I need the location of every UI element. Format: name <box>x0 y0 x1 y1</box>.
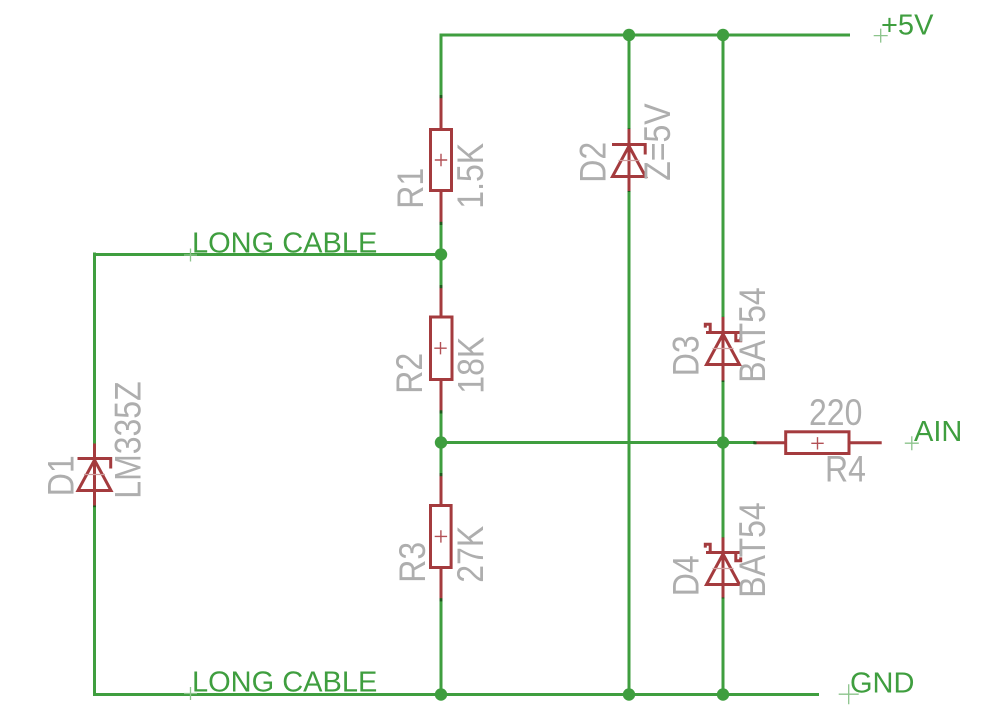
wire D2 column lower <box>628 190 631 695</box>
svg-text:1.5K: 1.5K <box>451 143 492 209</box>
svg-text:LM335Z: LM335Z <box>108 381 149 498</box>
diode D1 origin line <box>84 474 105 476</box>
svg-text:R1: R1 <box>391 168 432 209</box>
node AIN cross <box>905 436 919 450</box>
pin R1 top <box>440 96 443 129</box>
svg-text:R2: R2 <box>390 353 431 394</box>
resistor R1 origin cross <box>435 154 447 166</box>
svg-text:D3: D3 <box>666 335 707 376</box>
pin R2 top <box>440 286 443 317</box>
wire LONG CABLE top <box>95 253 442 256</box>
pin R3 bottom <box>440 568 443 599</box>
node bottom-R3 <box>435 688 447 700</box>
label origin crosses <box>184 29 919 705</box>
node mid D3-D4 <box>717 436 729 448</box>
diode D4 origin line <box>713 568 734 570</box>
pin R3 top <box>440 474 443 506</box>
wire R1 column top <box>440 34 443 98</box>
node GND cross <box>839 684 859 704</box>
diode D4 (schottky BAT54) <box>705 538 740 598</box>
node bottom-D2 <box>623 688 635 700</box>
dark pin-wire overlap dots <box>93 95 756 601</box>
svg-text:27K: 27K <box>451 526 492 583</box>
svg-text:Z=5V: Z=5V <box>638 103 679 180</box>
wire left column upper <box>93 253 96 446</box>
wire R1-R2 segment <box>440 223 443 287</box>
wire bottom GND rail <box>93 693 819 696</box>
wire D2 column upper <box>628 35 631 130</box>
wire R3-bottom segment <box>440 597 443 695</box>
node bottom-D4 <box>717 688 729 700</box>
svg-text:R4: R4 <box>825 449 866 490</box>
resistor R3 <box>431 506 452 568</box>
node +5V cross <box>874 29 888 43</box>
diode D1 (zener LM335Z) <box>78 444 112 506</box>
wire D4-bottom segment <box>722 597 725 695</box>
svg-text:LONG CABLE: LONG CABLE <box>192 667 377 699</box>
svg-text:D1: D1 <box>41 455 82 496</box>
diode D3 origin line <box>713 348 734 350</box>
diode D2 origin line <box>619 160 640 162</box>
svg-text:GND: GND <box>850 668 914 700</box>
diode D3 (schottky BAT54) <box>705 317 740 381</box>
resistor R1 <box>431 130 452 191</box>
svg-text:BAT54: BAT54 <box>733 502 774 597</box>
resistor R4 origin cross <box>811 437 823 449</box>
wire left column lower <box>93 506 96 697</box>
svg-text:18K: 18K <box>451 337 492 394</box>
pin R1 bottom <box>440 191 443 224</box>
wire mid AIN row <box>441 441 755 444</box>
resistor R2 origin cross <box>434 342 446 354</box>
resistor R3 origin cross <box>435 530 447 542</box>
resistor R2 <box>431 317 453 380</box>
svg-text:D4: D4 <box>666 555 707 596</box>
pin R4 left <box>754 441 786 444</box>
node LONG CABLE bottom cross <box>184 687 197 700</box>
svg-text:220: 220 <box>809 393 862 434</box>
wire top +5V rail <box>93 34 850 697</box>
svg-text:R3: R3 <box>393 542 434 583</box>
node LONG CABLE / R1-R2 <box>435 248 447 260</box>
node top-D2 <box>623 29 635 41</box>
svg-text:LONG CABLE: LONG CABLE <box>192 228 377 260</box>
resistor R4 <box>786 432 849 454</box>
wire D3-D4 segment <box>722 380 725 539</box>
svg-text:AIN: AIN <box>914 416 962 448</box>
diode D2 (zener Z=5V) <box>612 129 646 191</box>
wire R2-mid segment <box>440 407 443 475</box>
node LONG CABLE top cross <box>184 249 197 262</box>
pin R2 bottom <box>440 380 443 412</box>
pin R4 right <box>850 441 882 444</box>
wire D3 column upper <box>722 35 725 318</box>
svg-text:+5V: +5V <box>881 10 934 42</box>
red pins <box>441 96 882 599</box>
svg-text:BAT54: BAT54 <box>733 287 774 382</box>
node mid R2-R3 <box>435 436 447 448</box>
node top-D3 <box>717 29 729 41</box>
svg-text:D2: D2 <box>573 142 614 183</box>
